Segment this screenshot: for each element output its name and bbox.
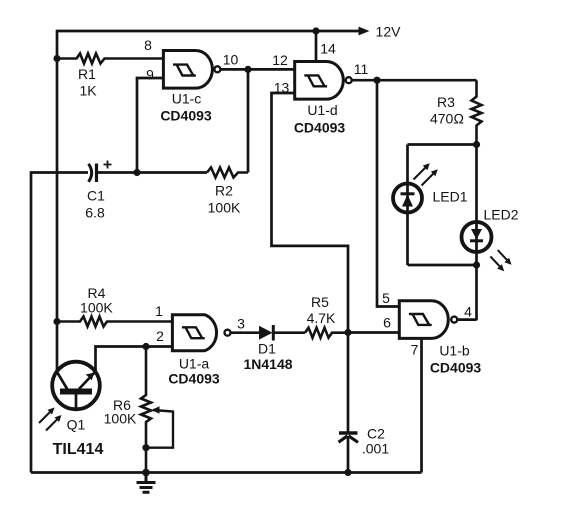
resistor R6 potentiometer: [141, 347, 151, 473]
svg-text:3: 3: [237, 316, 245, 332]
junction R6 bottom / wiper: [142, 444, 149, 451]
junction R5 / C2 / pin13: [344, 329, 351, 336]
transistor Q1 base bar: [60, 389, 92, 395]
LED LED1 circle: [393, 184, 422, 213]
LED LED1 triangle: [402, 195, 413, 207]
svg-text:C2: C2: [367, 426, 385, 442]
diode D1 triangle: [259, 326, 273, 340]
svg-text:6.8: 6.8: [85, 205, 105, 221]
svg-text:TIL414: TIL414: [53, 441, 104, 458]
wire C1 to R2: [97, 171, 208, 174]
wire outer left loop: [30, 171, 33, 472]
wire D1 to R5: [273, 331, 305, 334]
wire pin4 to LED rail: [457, 318, 476, 321]
resistor R2: [207, 168, 248, 178]
svg-text:U1-c: U1-c: [172, 91, 202, 107]
LED LED1 cathode bar: [401, 192, 415, 195]
svg-text:U1-b: U1-b: [439, 343, 470, 359]
transistor Q1 emitter arrowhead: [86, 373, 94, 381]
junction R3 bottom / LED rail: [473, 141, 480, 148]
potentiometer R6 wiper arrow: [146, 410, 173, 448]
svg-text:5: 5: [382, 290, 390, 306]
capacitor C1 plus sign: [104, 161, 112, 169]
svg-text:U1-d: U1-d: [307, 102, 337, 118]
svg-text:4.7K: 4.7K: [307, 310, 336, 326]
op-amp U1-a gate body: [172, 315, 216, 351]
svg-text:CD4093: CD4093: [168, 371, 220, 387]
wire pin11 down to pin5: [377, 80, 399, 306]
svg-text:R5: R5: [311, 294, 329, 310]
junction LED bottom rail: [473, 261, 480, 268]
svg-text:10: 10: [223, 52, 239, 68]
resistor R5: [305, 328, 348, 338]
svg-text:1N4148: 1N4148: [243, 356, 292, 372]
svg-text:C1: C1: [87, 188, 105, 204]
LED LED2 circle: [462, 222, 492, 252]
svg-text:R3: R3: [437, 94, 455, 110]
transistor Q1 photo arrow 1: [39, 411, 52, 424]
op-amp U1-a output bubble: [225, 330, 231, 336]
resistor R4: [57, 317, 172, 327]
svg-text:9: 9: [146, 67, 154, 83]
LED LED2 emission arrow 2: [490, 256, 501, 268]
svg-text:12V: 12V: [376, 24, 402, 40]
op-amp U1-d gate body: [295, 62, 344, 100]
svg-text:6: 6: [383, 315, 391, 331]
op-amp U1-b schmitt symbol: [409, 314, 432, 325]
LED LED2 emission arrow 1: [498, 250, 509, 262]
junction 12V rail / pin14: [312, 27, 319, 34]
wire C2 lower lead: [347, 436, 350, 473]
wire pin2 row: [96, 347, 173, 372]
wire pin10 node down to R2: [247, 69, 250, 172]
node 12V arrow: [359, 27, 370, 36]
wire pin13 loop: [272, 93, 349, 333]
wire pin11 row to R3: [352, 79, 477, 82]
svg-text:1K: 1K: [79, 83, 97, 99]
op-amp U1-d schmitt symbol: [304, 75, 327, 86]
capacitor C2 top plate: [339, 431, 358, 434]
wire LED1 branch: [406, 145, 409, 266]
op-amp U1-b output bubble: [451, 317, 457, 323]
transistor Q1 circle: [52, 362, 100, 410]
junction pin11: [373, 77, 380, 84]
transistor Q1 collector diagonal: [57, 372, 68, 390]
svg-text:1: 1: [155, 303, 163, 319]
svg-text:R2: R2: [215, 183, 233, 199]
svg-text:11: 11: [354, 61, 369, 77]
capacitor C2 bottom plate: [339, 436, 359, 443]
svg-text:14: 14: [320, 41, 336, 57]
wire LED bottom rail: [408, 264, 477, 267]
wire LED2 branch: [475, 145, 478, 321]
junction pin2 / R6: [142, 343, 149, 350]
wire C1 row left outer: [31, 171, 88, 174]
wire R5 to pin6: [348, 331, 399, 334]
resistor R1: [57, 54, 163, 64]
LED LED2 triangle: [471, 229, 482, 240]
wire bottom rail: [31, 471, 422, 474]
svg-text:D1: D1: [258, 341, 276, 357]
capacitor C1 curved plate: [89, 164, 92, 182]
svg-text:100K: 100K: [80, 300, 113, 316]
LED LED1 emission arrow 2: [422, 172, 436, 186]
svg-text:LED2: LED2: [483, 207, 518, 223]
ground: [137, 473, 156, 493]
junction R4 left: [53, 318, 60, 325]
svg-text:4: 4: [464, 304, 472, 320]
op-amp U1-c output bubble: [214, 66, 220, 72]
transistor Q1 base stub: [75, 394, 78, 409]
op-amp U1-d output bubble: [346, 77, 352, 83]
svg-text:7: 7: [411, 342, 419, 358]
svg-text:R1: R1: [78, 66, 96, 82]
svg-text:100K: 100K: [208, 200, 241, 216]
wire pin 14: [315, 31, 318, 62]
wire pin7 down: [420, 338, 423, 472]
wire C2 upper lead: [347, 333, 350, 432]
svg-text:CD4093: CD4093: [294, 120, 346, 136]
LED LED2 cathode bar: [470, 239, 483, 242]
junction ground node: [142, 469, 150, 477]
svg-text:LED1: LED1: [432, 189, 467, 205]
wire left vertical 12V rail: [56, 30, 59, 373]
svg-text:CD4093: CD4093: [160, 108, 212, 124]
junction C1/pin9: [133, 169, 140, 176]
resistor R3: [472, 80, 482, 144]
svg-text:100K: 100K: [104, 411, 137, 427]
capacitor C1 flat plate: [95, 164, 98, 183]
junction R1 left: [53, 55, 60, 62]
svg-text:2: 2: [156, 328, 164, 344]
svg-text:.001: .001: [362, 441, 389, 457]
op-amp U1-c gate body: [163, 51, 212, 89]
wire top 12V rail: [57, 30, 361, 33]
wire LED top rail: [408, 143, 477, 146]
wire pin10 to pin12: [220, 68, 294, 71]
svg-text:U1-a: U1-a: [179, 356, 210, 372]
op-amp U1-c schmitt symbol: [173, 65, 196, 76]
op-amp U1-a schmitt symbol: [182, 327, 205, 338]
transistor Q1 emitter diagonal: [79, 372, 96, 390]
transistor Q1 photo arrow 2: [46, 418, 59, 431]
svg-text:12: 12: [272, 52, 288, 68]
junction pin10 node: [244, 66, 251, 73]
svg-text:470Ω: 470Ω: [430, 111, 464, 127]
wire pin9 to C1 node: [137, 78, 163, 173]
svg-text:8: 8: [144, 37, 152, 53]
svg-text:Q1: Q1: [67, 417, 86, 433]
svg-text:CD4093: CD4093: [430, 360, 482, 376]
diode D1 cathode bar: [272, 325, 275, 341]
junction C2 bottom: [344, 469, 351, 476]
LED LED1 emission arrow 1: [414, 166, 428, 180]
wire pin3 to D1: [231, 331, 260, 334]
op-amp U1-b gate body: [399, 301, 448, 339]
